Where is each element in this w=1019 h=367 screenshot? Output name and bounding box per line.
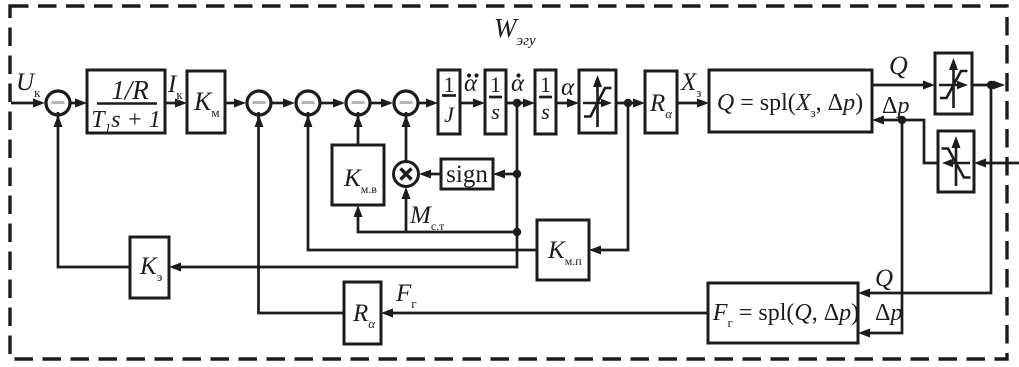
minus sign in S1 — [52, 101, 65, 104]
svg-text:sign: sign — [446, 161, 488, 188]
svg-text:1/R: 1/R — [111, 75, 149, 105]
wire: multiplier out up to S5 — [405, 112, 408, 161]
svg-text:s: s — [541, 99, 550, 124]
wire: 1/s a to 1/s b with node dot D1, label alpha-dot — [506, 102, 526, 105]
arrowhead into B1 — [75, 99, 87, 108]
arrowhead into K_mp — [589, 246, 601, 255]
summing junction S2 — [247, 91, 271, 115]
block SPLF F=spl(Q,dp) — [708, 283, 858, 343]
arrowhead into SAT3 — [974, 159, 986, 168]
arrowhead into multiplier — [419, 170, 431, 179]
gain block R_alpha (top) — [645, 71, 677, 133]
arrowhead into S2 bottom — [255, 115, 264, 127]
arrowhead into Km — [175, 99, 187, 108]
arrowhead into SPLF (dp) — [858, 329, 870, 338]
arrowhead into S2 — [234, 99, 246, 108]
junction dot D5 (sign feed) — [513, 170, 521, 178]
wire: S4 to S5 — [370, 102, 384, 105]
svg-text:T1s + 1: T1s + 1 — [91, 107, 160, 135]
wire: K_mp out to S3 — [308, 112, 537, 250]
junction dot D3 — [987, 81, 995, 89]
arrowhead into K_e — [169, 263, 181, 272]
wire: SAT3 out to SPL1 dp port with node dot D4 — [881, 120, 938, 163]
wire: D5 to sign — [501, 173, 517, 176]
svg-text:Q: Q — [875, 265, 893, 292]
arrowhead into S4 bottom — [354, 115, 363, 127]
arrowhead Q out at boundary — [993, 81, 1005, 90]
gain block K_mp — [537, 220, 589, 280]
label alpha-ddot — [464, 70, 479, 97]
svg-text:Q: Q — [889, 51, 908, 80]
wire: alpha-dot line down from D1 to K_e — [178, 103, 517, 267]
wire: 1/J to 1/s a, label alpha-ddot — [460, 102, 476, 105]
svg-text:Δp: Δp — [875, 300, 902, 326]
label alpha-dot — [511, 70, 525, 97]
arrowhead into SAT1 — [567, 99, 579, 108]
wire: SAT2 out to boundary with node dot D3 — [972, 84, 997, 87]
arrowhead into S1 bottom — [54, 115, 63, 127]
wire: K_e out up to S1 — [58, 112, 130, 267]
wire: friction line from D6 to K_mv bottom — [358, 214, 517, 232]
gain block K_e — [130, 237, 169, 298]
svg-text:1: 1 — [540, 72, 551, 97]
wire: B1 to Km with label I_k — [165, 102, 178, 105]
arrowhead into 1/s b — [523, 99, 535, 108]
block sign — [441, 159, 493, 189]
summing junction S1 — [46, 91, 70, 115]
summing junction S5 — [394, 91, 418, 115]
multiplier M1 — [394, 162, 419, 187]
svg-text:α: α — [561, 74, 575, 101]
wire: S3 to S4 — [320, 102, 336, 105]
svg-text:1: 1 — [490, 72, 501, 97]
arrowhead into SPL1 (dp) — [872, 116, 884, 125]
summing junction S4 — [346, 91, 370, 115]
arrowhead into K_mv bottom — [354, 205, 363, 217]
svg-text:1: 1 — [444, 72, 455, 97]
gain block R_alpha (bottom) — [344, 282, 381, 344]
wire: external dp input line — [983, 162, 1019, 165]
arrowhead into multiplier bottom — [402, 187, 411, 199]
arrowhead into S1 — [33, 99, 45, 108]
summing junction S3 — [296, 91, 320, 115]
wire: 1/s b to SAT1, label alpha — [556, 102, 570, 105]
svg-text:s: s — [491, 99, 500, 124]
gain block Km — [187, 71, 225, 133]
svg-text:J: J — [444, 102, 455, 127]
wire: SPL1 Q output to SAT2, label Q — [872, 84, 926, 87]
wire: M_st branch up to multiplier — [405, 196, 408, 232]
wire: R_alpha bottom feedback up to S2 — [259, 112, 345, 313]
gain block K_mv — [332, 145, 384, 205]
arrowhead into S5 bottom — [402, 115, 411, 127]
arrowhead into S3 bottom — [304, 115, 313, 127]
wire: dp feedback down to F block — [867, 120, 902, 333]
arrowhead into SPL1 — [697, 99, 709, 108]
block B1 transfer function (1/R)/(T1s+1) — [87, 70, 165, 133]
wire: Km to S2 — [225, 102, 237, 105]
wire: Q feedback down to F block — [867, 85, 991, 293]
block SPL1 Q=spl(Xz,dp) — [709, 70, 872, 132]
saturation block SAT1 — [579, 70, 616, 133]
junction dot D2 — [624, 99, 632, 107]
junction dot D1 — [513, 99, 521, 107]
wire: SAT1 to R_alpha with node dot D2 — [616, 102, 636, 105]
integrator block 1/s b — [535, 70, 556, 134]
arrowhead into R_alpha bottom — [381, 309, 393, 318]
wire: K_mv out up to S4 — [357, 112, 360, 145]
junction dot D6 (friction line) — [513, 228, 521, 236]
saturation block SAT3 (mirrored) — [938, 131, 974, 192]
arrowhead into sign — [493, 170, 505, 179]
svg-text:Fг = spl(Q, Δp): Fг = spl(Q, Δp) — [712, 300, 859, 330]
junction dot D4 — [898, 116, 906, 124]
wire: SPLF out to R_alpha bottom, label F_g — [390, 312, 708, 315]
svg-text:Q = spl(Xз, Δp): Q = spl(Xз, Δp) — [717, 90, 863, 120]
arrowhead into SAT2 — [923, 81, 935, 90]
B1 fraction bar — [97, 102, 157, 105]
wire: D2 down to K_mp input — [598, 103, 628, 250]
arrowhead into 1/s a — [473, 99, 485, 108]
wire: S1 to block B1 — [70, 102, 78, 105]
svg-text:Δp: Δp — [882, 93, 909, 119]
arrowhead into S3 — [283, 99, 295, 108]
arrowhead into R_alpha — [633, 99, 645, 108]
arrowhead into S5 — [381, 99, 393, 108]
saturation block SAT2 — [935, 53, 972, 114]
arrowhead into 1/J — [426, 99, 438, 108]
integrator block 1/s a — [485, 70, 506, 134]
wire: sign to multiplier — [428, 173, 441, 176]
wire: R_alpha to SPL1, label X_z — [677, 102, 700, 105]
wire: S5 to integrator 1/J — [418, 102, 429, 105]
wire: input U_k to S1 — [11, 102, 36, 105]
integrator block 1/J — [438, 70, 460, 134]
wire: S2 to S3 — [271, 102, 286, 105]
arrowhead into S4 — [333, 99, 345, 108]
arrowhead into SPLF (Q) — [858, 289, 870, 298]
